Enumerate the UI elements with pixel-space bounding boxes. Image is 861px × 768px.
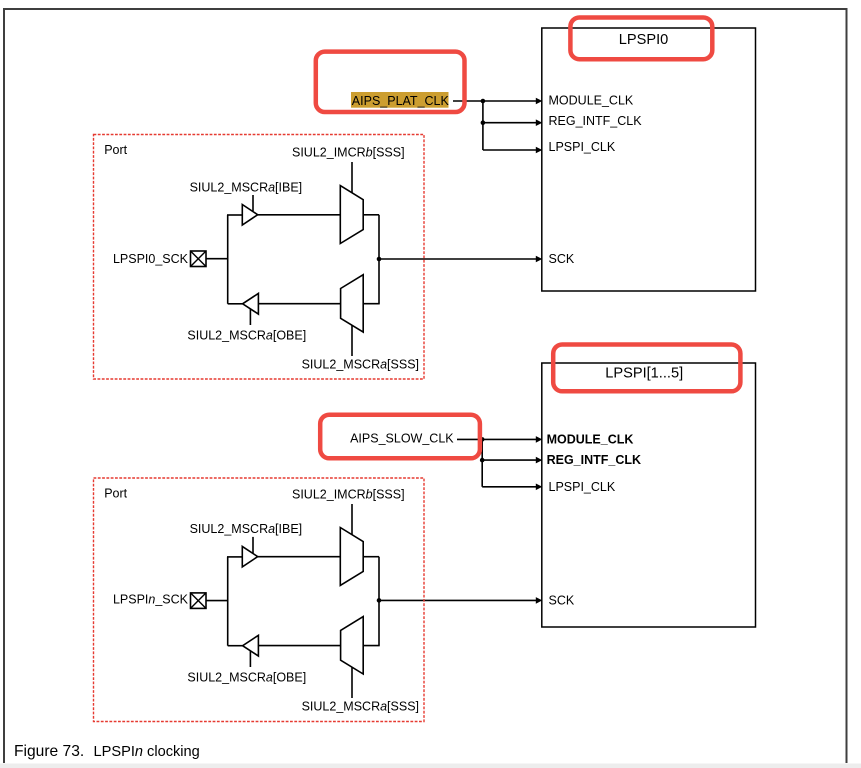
buffer IBE (bottom) [242, 546, 257, 567]
wire into output mux right side [363, 303, 380, 305]
arrowhead SCK (U1) [536, 256, 543, 263]
highlight box around LPSPI0 title [570, 18, 712, 60]
highlight box around AIPS_SLOW_CLK [320, 415, 480, 459]
mux input (IMCR) bottom diagram [340, 528, 363, 586]
wire input mux output [363, 214, 379, 216]
svg-text:SIUL2_MSCRa[OBE]: SIUL2_MSCRa[OBE] [187, 329, 306, 343]
wire AIPS_SLOW_CLK to MODULE_CLK [457, 438, 537, 440]
svg-text:REG_INTF_CLK: REG_INTF_CLK [549, 114, 643, 128]
wire into output mux right side (bottom) [363, 645, 380, 647]
svg-text:LPSPI[1...5]: LPSPI[1...5] [605, 366, 683, 382]
wire left vertical tee [227, 215, 229, 304]
svg-text:MODULE_CLK: MODULE_CLK [549, 93, 634, 107]
svg-text:SCK: SCK [549, 252, 575, 266]
svg-text:SIUL2_IMCRb[SSS]: SIUL2_IMCRb[SSS] [292, 487, 405, 501]
arrowhead SCK (U2) [536, 597, 543, 604]
wire IBE buffer to input mux [258, 214, 341, 216]
port boundary box (bottom) [94, 478, 425, 722]
junction node at REG_INTF_CLK branch [481, 120, 486, 125]
wire to LPSPI_CLK (U2) [482, 486, 537, 488]
svg-text:LPSPIn_SCK: LPSPIn_SCK [113, 593, 189, 607]
svg-text:SIUL2_MSCRa[IBE]: SIUL2_MSCRa[IBE] [190, 522, 303, 536]
select line SIUL2_MSCRa[SSS] [351, 325, 353, 356]
junction node at REG_INTF_CLK branch (U2) [480, 458, 485, 463]
wire right vertical (bottom) [378, 557, 380, 646]
wire SCK net to U2 [379, 599, 537, 601]
pad symbol LPSPI0_SCK [191, 251, 207, 267]
select line SIUL2_IMCRb[SSS] (bottom) [351, 504, 353, 535]
buffer IBE (input enable) [242, 205, 257, 226]
wire OBE buffer to tee [228, 303, 243, 305]
wire OBE buffer to tee (bottom) [228, 645, 243, 647]
arrowhead REG_INTF_CLK (U2) [536, 457, 543, 464]
wire output mux to OBE buffer (bottom) [258, 645, 340, 647]
svg-text:SIUL2_MSCRa[OBE]: SIUL2_MSCRa[OBE] [187, 671, 306, 685]
mux output (MSCR SSS) bottom diagram [341, 617, 364, 674]
net label AIPS_PLAT_CLK (highlighted) [351, 92, 450, 108]
select line SIUL2_MSCRa[SSS] (bottom) [351, 667, 353, 698]
wire pad to tee (bottom) [206, 600, 228, 602]
wire vertical branch [482, 101, 484, 150]
wire input path to IBE buffer [227, 214, 242, 216]
svg-text:SIUL2_IMCRb[SSS]: SIUL2_IMCRb[SSS] [292, 145, 405, 159]
port boundary box (top) [94, 135, 425, 380]
buffer OBE (output enable) [243, 293, 259, 314]
junction node SCK [377, 257, 382, 262]
svg-text:LPSPI0_SCK: LPSPI0_SCK [113, 252, 189, 266]
select line SIUL2_IMCRb[SSS] [351, 162, 353, 193]
pad symbol LPSPIn_SCK [191, 593, 207, 609]
svg-text:SIUL2_MSCRa[SSS]: SIUL2_MSCRa[SSS] [302, 699, 419, 713]
svg-text:SIUL2_MSCRa[SSS]: SIUL2_MSCRa[SSS] [302, 357, 419, 371]
arrowhead MODULE_CLK (U1) [536, 98, 543, 105]
arrowhead REG_INTF_CLK (U1) [536, 119, 543, 126]
select line SIUL2_MSCRa[OBE] [249, 309, 251, 325]
wire AIPS_PLAT_CLK to MODULE_CLK [453, 100, 537, 102]
mux output (MSCR SSS) top diagram [341, 275, 364, 332]
svg-text:Figure 73.: Figure 73. [14, 743, 84, 760]
wire input path to IBE buffer (bottom) [227, 556, 242, 558]
highlight box around LPSPI[1...5] title [553, 345, 740, 392]
svg-text:AIPS_SLOW_CLK: AIPS_SLOW_CLK [350, 432, 454, 446]
wire SCK net to U1 [379, 258, 537, 260]
svg-text:Port: Port [104, 143, 127, 157]
select line SIUL2_MSCRa[OBE] (bottom) [249, 651, 251, 667]
block U1 LPSPI0 [542, 28, 756, 291]
svg-text:SCK: SCK [549, 593, 575, 607]
wire to REG_INTF_CLK [483, 122, 537, 124]
wire to REG_INTF_CLK (U2) [482, 459, 537, 461]
buffer OBE (bottom) [243, 635, 259, 656]
arrowhead LPSPI_CLK (U1) [536, 147, 543, 154]
svg-text:LPSPI0: LPSPI0 [619, 32, 669, 48]
junction node at MODULE_CLK branch [481, 99, 486, 104]
arrowhead LPSPI_CLK (U2) [536, 484, 543, 491]
highlight box around AIPS_PLAT_CLK [316, 52, 465, 112]
svg-text:REG_INTF_CLK: REG_INTF_CLK [547, 453, 641, 467]
svg-text:SIUL2_MSCRa[IBE]: SIUL2_MSCRa[IBE] [190, 180, 303, 194]
svg-text:LPSPI_CLK: LPSPI_CLK [549, 480, 616, 494]
wire to LPSPI_CLK [483, 149, 537, 151]
svg-text:Port: Port [104, 487, 127, 501]
wire pad to tee [206, 258, 228, 260]
svg-text:LPSPIn clocking: LPSPIn clocking [94, 744, 200, 760]
select line SIUL2_MSCRa[IBE] [252, 195, 254, 211]
svg-text:AIPS_PLAT_CLK: AIPS_PLAT_CLK [352, 94, 450, 108]
wire left vertical tee (bottom) [227, 557, 229, 646]
mux input (IMCR) top diagram [340, 186, 363, 244]
wire output mux to OBE buffer [258, 303, 340, 305]
wire input mux output (bottom) [363, 556, 379, 558]
wire right vertical [378, 215, 380, 304]
wire IBE buffer to input mux (bottom) [258, 556, 341, 558]
svg-text:LPSPI_CLK: LPSPI_CLK [549, 140, 616, 154]
wire vertical branch (U2) [481, 439, 483, 486]
junction node at MODULE_CLK branch (U2) [480, 437, 485, 442]
block U2 LPSPI[1...5] [542, 363, 756, 627]
junction node SCK (bottom) [377, 598, 382, 603]
select line SIUL2_MSCRa[IBE] (bottom) [252, 537, 254, 553]
arrowhead MODULE_CLK (U2) [536, 436, 543, 443]
bottom gray bar [0, 764, 861, 768]
svg-text:MODULE_CLK: MODULE_CLK [547, 433, 634, 447]
